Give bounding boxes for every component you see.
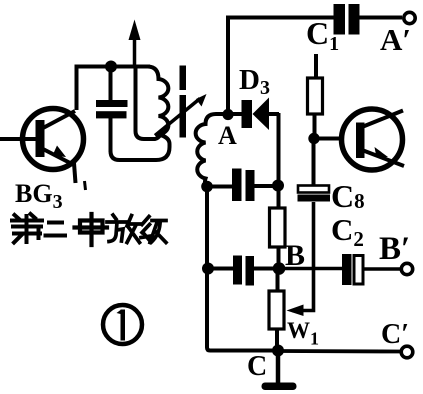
char di <box>12 214 42 243</box>
resistor R top lead <box>277 186 281 208</box>
wire row1 left <box>207 185 233 189</box>
wire BG3 collector to tank junction <box>77 67 112 111</box>
terminal B' <box>401 263 412 274</box>
node dot row2 left <box>202 263 214 275</box>
capacitor tank plates <box>96 100 128 107</box>
wire node C to terminal <box>278 349 401 353</box>
wire node A up and top rail <box>228 18 334 113</box>
node junction dot tank top <box>105 61 117 73</box>
tuning arrow <box>155 94 207 136</box>
capacitor row1 <box>232 169 255 202</box>
terminal A' <box>404 12 415 23</box>
svg-text:A′: A′ <box>380 22 411 57</box>
svg-text:C: C <box>247 351 267 382</box>
char ji <box>141 217 166 243</box>
char er <box>46 223 66 236</box>
node A dot <box>222 109 233 120</box>
wire row2 right <box>254 267 274 271</box>
resistor R body <box>270 208 286 247</box>
resistor top-right lead upper <box>314 54 318 78</box>
terminal C' <box>401 346 413 358</box>
capacitor C1 <box>334 4 403 35</box>
node B dot <box>273 262 286 275</box>
node dot base junction <box>308 133 319 144</box>
wire node B to C2 <box>279 267 342 271</box>
svg-text:B′: B′ <box>379 231 410 267</box>
svg-text:C′: C′ <box>381 319 409 350</box>
transistor BG3 <box>0 109 84 170</box>
wire left column down <box>207 187 278 351</box>
svg-text:A: A <box>218 121 237 150</box>
char fang <box>107 215 140 243</box>
wire row2 left <box>208 267 234 271</box>
label text second IF stage chinese <box>12 214 166 245</box>
inductor primary coil <box>111 67 170 161</box>
node dot row1 right <box>272 180 284 192</box>
capacitor C2 <box>342 254 401 285</box>
power arrow up <box>129 20 141 68</box>
transformer core <box>180 66 187 138</box>
wire BG3 emitter stub <box>74 163 76 183</box>
diode D3 <box>232 98 279 131</box>
capacitor row2 <box>233 256 254 286</box>
node C dot <box>272 345 284 357</box>
wire base junction to transistor <box>314 137 343 141</box>
node dot row1 left <box>201 181 213 193</box>
char zhong <box>75 214 108 245</box>
potentiometer W1 wiper <box>287 202 314 316</box>
transistor right <box>342 109 405 170</box>
circled figure number 1 <box>103 305 142 344</box>
wire D3 down to row1 <box>277 113 281 186</box>
potentiometer W1 bottom lead <box>275 329 279 351</box>
capacitor tank bottom lead <box>109 118 113 152</box>
capacitor tank top lead <box>109 67 113 102</box>
wire junction to coil <box>111 65 150 69</box>
resistor top-right lead lower <box>313 114 317 139</box>
potentiometer W1 top lead <box>276 269 280 292</box>
inductor secondary coil <box>196 114 228 188</box>
resistor top-right body <box>308 78 323 114</box>
resistor R bottom lead <box>277 247 281 269</box>
capacitor C8 <box>298 139 331 202</box>
wire BG3 emitter tick <box>85 181 86 190</box>
wire row1 right <box>255 184 275 188</box>
potentiometer W1 body <box>269 291 284 329</box>
ground <box>262 350 297 390</box>
